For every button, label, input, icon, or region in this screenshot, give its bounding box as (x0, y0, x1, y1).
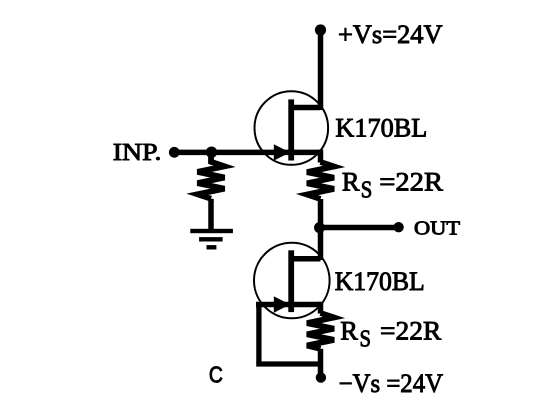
wire Q2 gate to -Vs rail (left elbow + bottom rail) (256, 305, 321, 367)
node OUT terminal (393, 222, 403, 232)
svg-text:K170BL: K170BL (335, 114, 427, 143)
ground (190, 229, 233, 250)
wire OUT stub (320, 225, 399, 231)
wire Q2 gate/source line (256, 302, 321, 308)
wire Q2 source elbow (318, 302, 324, 314)
transistor Q2 K170BL (lower JFET) (254, 243, 330, 319)
label RS=22R (lower) (340, 316, 441, 353)
label RS=22R (upper) (342, 167, 443, 204)
resistor R1 (input shunt) (198, 152, 225, 198)
svg-text:+Vs=24V: +Vs=24V (338, 20, 443, 49)
svg-text:S: S (360, 327, 372, 353)
wire INP to Q1 gate / source line (174, 150, 320, 156)
wire RS1 to OUT node (318, 199, 324, 260)
node input terminal (169, 147, 180, 158)
transistor Q1 K170BL (upper JFET) (254, 91, 328, 165)
svg-text:OUT: OUT (414, 218, 460, 239)
svg-text:S: S (361, 178, 373, 204)
svg-text:R: R (342, 167, 360, 197)
svg-text:C: C (209, 362, 223, 388)
wire +Vs to Q1 drain (318, 30, 324, 110)
svg-text:INP.: INP. (113, 139, 162, 166)
svg-text:=22R: =22R (380, 316, 442, 346)
wire Q1 source elbow (318, 150, 324, 163)
svg-text:K170BL: K170BL (335, 267, 425, 296)
wire R1 to ground (208, 199, 214, 230)
svg-text:R: R (340, 316, 358, 346)
wire RS2 to -Vs terminal (318, 349, 324, 378)
svg-text:=22R: =22R (379, 167, 443, 197)
node gate/R1 junction (206, 147, 217, 158)
svg-text:−Vs =24V: −Vs =24V (339, 369, 444, 398)
resistor RS1 22R (307, 162, 334, 199)
node +Vs terminal (315, 24, 326, 35)
node OUT junction (314, 222, 325, 233)
resistor RS2 22R (307, 313, 334, 349)
node -Vs terminal (316, 372, 326, 382)
